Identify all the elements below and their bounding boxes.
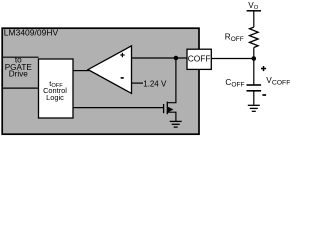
pin COFF [187,49,211,69]
node internal junction [174,56,179,61]
wire COFF pin to external node [211,58,254,60]
svg-text:LM3409/09HV: LM3409/09HV [4,27,59,37]
ground (COFF) [248,105,260,111]
label + (VCOFF) [261,66,266,71]
wire to PGATE drive (top) [2,56,39,58]
transistor Q1 arrow [168,107,174,112]
capacitor COFF plates [247,84,262,86]
resistor ROFF [250,27,259,47]
transistor Q1 NMOS gate bar [163,104,165,113]
svg-text:COFF: COFF [188,54,211,64]
label to PGATE Drive [5,56,33,79]
wire COFF cap to ground [253,91,255,105]
wire gate drive [73,107,164,109]
wire comparator + input to COFF node [132,57,188,59]
wire drain to node [167,58,176,103]
wire 1.24V reference stub [132,82,144,84]
op-amp comparator [88,46,132,94]
transistor Q1 channel bar [166,102,168,115]
IC block LM3409/09HV [2,28,199,134]
svg-text:Logic: Logic [46,93,64,102]
ground (Q1 source) [170,121,182,127]
svg-text:Drive: Drive [9,70,29,79]
wire comparator output to logic [73,70,89,72]
wire VO to ROFF [253,11,255,27]
label - (VCOFF) [262,94,266,96]
block U1 tOFF Control Logic [39,59,74,118]
wire ROFF to node [253,48,255,86]
wire to PGATE drive (bottom) [2,87,39,89]
svg-text:1.24 V: 1.24 V [143,80,167,89]
node external junction [252,56,257,61]
wire source to ground [167,112,176,121]
